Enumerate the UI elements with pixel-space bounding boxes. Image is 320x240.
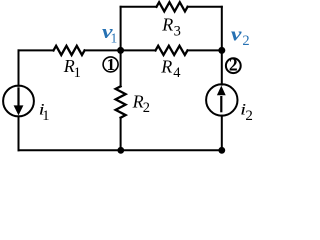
- wire top-left (riser to R3): [121, 6, 157, 8]
- wire node v1 down to R2: [120, 50, 122, 86]
- wire right riser (top to v2): [221, 7, 223, 51]
- resistor R2: [116, 86, 126, 117]
- i1 arrow: [14, 87, 24, 115]
- svg-text:4: 4: [173, 65, 181, 81]
- svg-text:1: 1: [42, 108, 49, 124]
- svg-text:2: 2: [245, 108, 253, 124]
- svg-text:3: 3: [174, 23, 181, 39]
- svg-text:R: R: [161, 14, 173, 34]
- svg-text:2: 2: [143, 100, 150, 116]
- svg-text:1: 1: [74, 65, 81, 81]
- resistor R4: [156, 46, 188, 55]
- svg-text:2: 2: [229, 55, 238, 75]
- i2 arrow: [217, 86, 226, 113]
- wire mid-left (corner to R1): [19, 49, 54, 51]
- resistor R1: [54, 46, 85, 55]
- node number 1 circle: [103, 57, 118, 72]
- svg-text:v: v: [231, 24, 242, 45]
- wire v1 riser: [120, 7, 122, 51]
- svg-text:R: R: [160, 57, 172, 77]
- current source i1 circle: [3, 86, 34, 117]
- wire i2 to bottom: [221, 116, 223, 151]
- wire top-right (R3 to right riser): [188, 6, 222, 8]
- wire node v1 to R4: [121, 49, 156, 51]
- bottom junction dot (R2): [117, 147, 124, 154]
- svg-text:1: 1: [107, 55, 116, 74]
- svg-text:1: 1: [111, 30, 118, 45]
- wire R2 to bottom: [120, 118, 122, 151]
- wire left vertical top (corner to i1): [18, 50, 20, 85]
- wire bottom: [19, 149, 222, 151]
- wire v2 down to i2: [221, 50, 223, 84]
- svg-text:2: 2: [242, 33, 249, 49]
- current source i2 circle: [206, 84, 237, 115]
- bottom junction dot (i2): [218, 147, 225, 154]
- node v1 junction dot: [117, 47, 124, 54]
- wire R1 to node v1: [85, 49, 121, 51]
- node number 2 circle: [226, 58, 241, 73]
- wire R4 to node v2: [188, 49, 222, 51]
- resistor R3: [157, 2, 188, 11]
- node v2 junction dot: [218, 47, 225, 54]
- wire left vertical bottom (i1 to bottom): [18, 116, 20, 150]
